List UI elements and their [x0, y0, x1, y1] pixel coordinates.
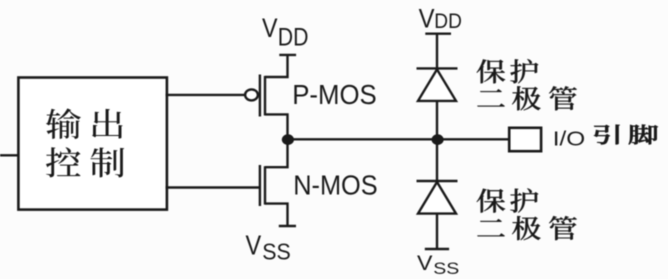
label 二极管 lower: [477, 216, 576, 240]
transistor P-MOS Q1: [245, 55, 287, 139]
power VSS at N-MOS: [246, 226, 297, 265]
svg-text:P-MOS: P-MOS: [292, 79, 377, 110]
wire block to P-MOS gate: [166, 94, 246, 96]
power VSS at diode column: [417, 249, 459, 278]
label 保护 upper: [477, 59, 539, 83]
node I/O junction: [432, 134, 444, 145]
svg-text:V: V: [419, 4, 435, 33]
label 引脚: [594, 125, 658, 145]
I/O pad square: [509, 128, 541, 151]
svg-text:DD: DD: [278, 23, 309, 51]
label 保护 lower: [477, 188, 539, 212]
label 输出控制 line1: [46, 108, 123, 139]
label 二极管 upper: [477, 86, 576, 110]
power VDD at P-MOS: [262, 13, 308, 54]
transistor N-MOS Q2: [260, 139, 288, 226]
svg-text:I/O: I/O: [553, 127, 585, 150]
diode D2 lower protection: [417, 139, 458, 249]
svg-text:DD: DD: [434, 10, 462, 33]
power VDD at diode column: [419, 4, 462, 68]
wire output to I/O pad: [288, 138, 510, 140]
svg-text:SS: SS: [433, 258, 459, 277]
output control block: [18, 78, 167, 210]
svg-text:V: V: [417, 251, 433, 275]
diode D1 upper protection: [417, 68, 458, 139]
svg-text:N-MOS: N-MOS: [293, 170, 378, 201]
svg-text:V: V: [246, 231, 262, 261]
node output junction: [282, 134, 294, 145]
svg-text:SS: SS: [262, 239, 291, 265]
wire block to N-MOS gate: [166, 186, 260, 188]
wire input to control block: [0, 154, 20, 156]
svg-text:V: V: [262, 13, 278, 43]
label 输出控制 line2: [46, 147, 124, 177]
